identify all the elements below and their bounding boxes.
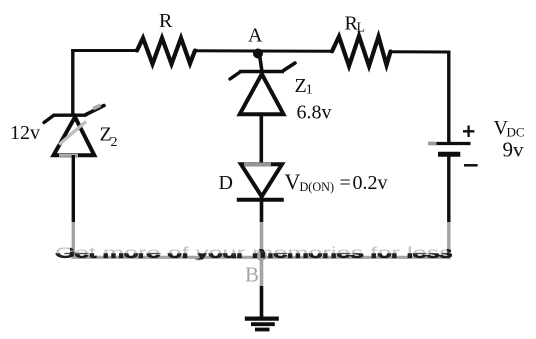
svg-text:D: D xyxy=(219,172,233,194)
svg-text:R: R xyxy=(159,10,173,32)
svg-text:=: = xyxy=(340,172,351,194)
wire top-left segment xyxy=(71,49,138,52)
label Z2 xyxy=(100,124,118,151)
label VDC xyxy=(494,117,525,140)
wire left upper xyxy=(71,49,74,115)
battery VDC xyxy=(428,144,471,155)
wire center D to ground xyxy=(260,196,264,321)
label Z1 xyxy=(295,75,313,98)
wire center Z1 to D xyxy=(259,113,263,164)
diode D xyxy=(237,164,284,200)
ground xyxy=(245,319,279,330)
svg-text:D(ON): D(ON) xyxy=(300,180,335,194)
svg-text:0.2v: 0.2v xyxy=(353,172,388,194)
watermark xyxy=(0,222,536,286)
node A xyxy=(248,25,263,59)
wire center A to Z1 xyxy=(259,51,262,72)
svg-text:A: A xyxy=(248,25,263,47)
resistor RL xyxy=(332,12,391,66)
wire right upper xyxy=(447,51,450,144)
battery plus sign xyxy=(463,126,474,138)
node B xyxy=(245,251,267,287)
svg-text:2: 2 xyxy=(111,135,118,150)
zener Z2 xyxy=(44,105,104,155)
wire bottom xyxy=(71,256,450,259)
wire top-right segment xyxy=(389,50,450,53)
wire right lower xyxy=(447,155,450,259)
svg-text:1: 1 xyxy=(306,83,313,98)
label VD(ON) value xyxy=(285,169,388,194)
zener Z1 xyxy=(230,63,295,114)
svg-text:12v: 12v xyxy=(10,122,40,144)
wire left lower xyxy=(72,155,75,258)
resistor R xyxy=(137,10,195,64)
svg-text:V: V xyxy=(285,169,301,194)
svg-text:L: L xyxy=(357,21,366,36)
svg-text:6.8v: 6.8v xyxy=(297,101,332,123)
battery minus sign xyxy=(464,164,478,167)
wire top-middle segment xyxy=(194,49,333,53)
svg-text:9v: 9v xyxy=(503,138,525,162)
